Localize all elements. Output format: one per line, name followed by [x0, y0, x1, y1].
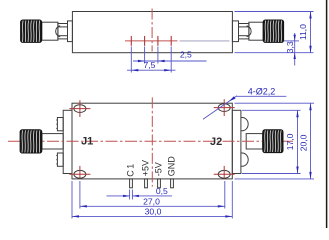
extension lines for 17,0: [242, 109, 301, 111]
svg-text:-5V: -5V: [154, 162, 164, 176]
pin 1 (plan): [130, 179, 133, 188]
right SMA flange plate (plan): [232, 110, 241, 173]
right SMA shaft (plan): [246, 134, 263, 149]
svg-text:3,3: 3,3: [285, 41, 295, 53]
dimension 27,0: [80, 197, 225, 208]
svg-text:7,5: 7,5: [144, 60, 156, 70]
drawing frame right border: [326, 0, 328, 228]
left lower mounting boss: [57, 153, 63, 166]
dimension 0,5: [107, 186, 173, 200]
leader 4-Ø2,2: [203, 86, 286, 119]
horizontal centerline (plan, red): [8, 140, 293, 142]
vertical centerline (top view, red): [151, 9, 153, 52]
pin 4 (plan): [171, 179, 174, 188]
extension lines for 20,0: [235, 102, 315, 104]
vertical centerline (plan, red): [151, 97, 153, 186]
dimension 17,0: [285, 110, 299, 173]
svg-text:J2: J2: [210, 136, 222, 148]
extension line body top right: [235, 11, 314, 13]
left SMA hex nut (side view): [58, 24, 68, 39]
right SMA knurled nut (side view): [263, 20, 284, 43]
svg-text:27,0: 27,0: [143, 197, 160, 207]
svg-text:17,0: 17,0: [285, 133, 295, 150]
svg-text:30,0: 30,0: [145, 206, 162, 216]
body outline (plan view): [72, 103, 232, 179]
right SMA knurled nut (plan): [263, 130, 283, 153]
left SMA knurled nut (plan): [20, 130, 42, 153]
svg-text:+5V: +5V: [141, 160, 151, 176]
svg-text:4-Ø2,2: 4-Ø2,2: [248, 86, 276, 96]
left SMA flange (side view): [68, 21, 73, 42]
left SMA shaft (plan): [42, 134, 63, 149]
extension line pin row to right (blue): [284, 40, 299, 42]
body outline (side view): [72, 12, 232, 53]
svg-text:20,0: 20,0: [299, 134, 309, 151]
right SMA hex nut (side view): [239, 24, 249, 39]
corner hole top-right: [214, 99, 235, 116]
extension lines from pins (blue): [131, 47, 171, 73]
right SMA flange (side view): [232, 21, 238, 42]
svg-text:0,5: 0,5: [156, 186, 168, 196]
extension line body bottom right: [235, 52, 314, 54]
left SMA shaft (side view): [42, 22, 58, 40]
svg-text:GND: GND: [167, 156, 177, 177]
corner hole bottom-left: [69, 166, 90, 179]
right lower mounting boss: [241, 153, 248, 166]
dimension 7,5: [127, 60, 176, 71]
pin hidden line (top view, red): [125, 40, 178, 42]
svg-text:C1: C1: [126, 162, 136, 177]
dimension 2,5: [133, 49, 207, 62]
corner hole top-left: [69, 100, 90, 117]
left SMA knurled nut (side view): [21, 20, 42, 43]
right upper mounting boss: [241, 118, 248, 131]
left upper mounting boss: [57, 118, 63, 131]
right SMA dome knob: [247, 26, 252, 37]
svg-text:11,0: 11,0: [298, 24, 308, 40]
dimension 11,0: [298, 12, 312, 53]
left SMA flange plate (plan): [63, 110, 72, 173]
corner hole bottom-right: [214, 166, 235, 179]
dimension 30,0: [72, 206, 232, 217]
pin 2 (plan): [145, 179, 148, 188]
left SMA dome knob: [56, 26, 61, 37]
pin 3 (plan): [158, 179, 161, 188]
dimension 3,3: [285, 33, 296, 66]
svg-text:J1: J1: [81, 135, 93, 147]
svg-text:2,5: 2,5: [180, 49, 192, 59]
extension lines for 30,0: [71, 181, 73, 219]
dimension 20,0: [299, 103, 312, 179]
extension lines for 27,0: [79, 181, 81, 209]
right SMA shaft (side view): [249, 22, 263, 40]
pin tick marks (red crosses): [131, 36, 171, 46]
